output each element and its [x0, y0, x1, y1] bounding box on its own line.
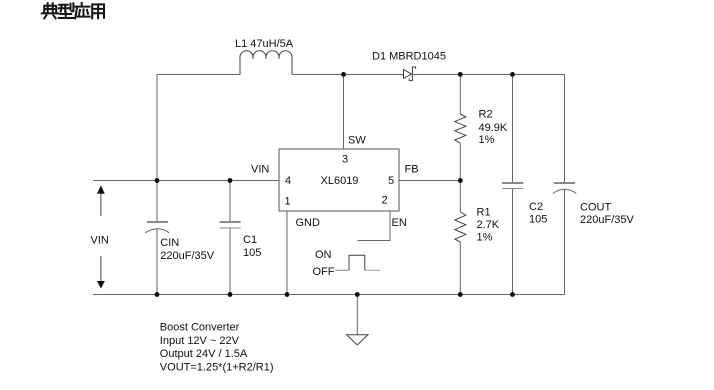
- svg-text:EN: EN: [392, 217, 407, 229]
- node GND pin junction: [285, 292, 290, 297]
- svg-text:R1: R1: [477, 206, 491, 218]
- svg-text:D1 MBRD1045: D1 MBRD1045: [372, 51, 446, 63]
- svg-text:VOUT=1.25*(1+R2/R1): VOUT=1.25*(1+R2/R1): [160, 361, 274, 373]
- svg-text:FB: FB: [405, 164, 419, 176]
- 应: [75, 3, 90, 18]
- svg-text:3: 3: [342, 154, 348, 166]
- title 典型应用: [42, 3, 104, 18]
- 用: [92, 4, 104, 18]
- capacitor C2: [502, 182, 523, 189]
- diode D1: [404, 67, 416, 81]
- wire COUT vertical upper: [564, 74, 566, 182]
- input arrow down: [97, 256, 105, 289]
- wire C2 vertical lower: [512, 189, 514, 295]
- wire VIN rail: [93, 180, 279, 182]
- svg-text:SW: SW: [348, 135, 366, 147]
- node diode cathode junction: [458, 72, 463, 77]
- node FB junction: [458, 178, 463, 183]
- svg-text:49.9K: 49.9K: [479, 122, 508, 134]
- wire COUT vertical lower: [564, 189, 566, 295]
- svg-text:CIN: CIN: [160, 237, 179, 249]
- inductor L1: [240, 51, 292, 75]
- svg-text:C1: C1: [243, 234, 257, 246]
- node CIN bottom junction: [155, 292, 160, 297]
- wire top rail right segment: [412, 74, 565, 76]
- svg-text:Boost Converter: Boost Converter: [160, 321, 240, 333]
- wire R2 to FB: [459, 143, 461, 212]
- wire EN pin L-shape: [358, 211, 391, 241]
- capacitor C1: [220, 221, 241, 228]
- svg-text:L1 47uH/5A: L1 47uH/5A: [235, 38, 294, 50]
- resistor R2: [455, 114, 466, 143]
- node R1 bottom junction: [458, 292, 463, 297]
- wire left branch vertical lower: [156, 229, 158, 295]
- node C2 top junction: [510, 72, 515, 77]
- wire GND pin down: [286, 211, 288, 295]
- svg-text:ON: ON: [315, 249, 332, 261]
- svg-text:GND: GND: [296, 217, 321, 229]
- svg-text:Output 24V / 1.5A: Output 24V / 1.5A: [160, 348, 248, 360]
- svg-text:R2: R2: [479, 109, 493, 121]
- node C2 bottom junction: [510, 292, 515, 297]
- node C1 top junction: [228, 178, 233, 183]
- svg-text:4: 4: [285, 175, 291, 187]
- svg-text:220uF/35V: 220uF/35V: [580, 214, 634, 226]
- wire ground stem: [356, 295, 358, 336]
- wire R1 bottom: [459, 242, 461, 295]
- wire FB: [399, 180, 460, 182]
- op IC U1 XL6019: [279, 149, 399, 211]
- svg-text:VIN: VIN: [251, 164, 269, 176]
- node CIN top junction: [155, 178, 160, 183]
- wire top rail left segment: [157, 74, 240, 76]
- svg-text:OFF: OFF: [313, 266, 335, 278]
- svg-text:C2: C2: [529, 201, 543, 213]
- svg-text:Input 12V ~ 22V: Input 12V ~ 22V: [160, 335, 240, 347]
- capacitor COUT: [553, 182, 576, 193]
- svg-text:105: 105: [243, 247, 261, 259]
- svg-text:220uF/35V: 220uF/35V: [160, 250, 214, 262]
- input arrow up: [97, 185, 105, 216]
- svg-text:COUT: COUT: [580, 202, 611, 214]
- svg-text:105: 105: [529, 213, 547, 225]
- svg-text:5: 5: [388, 175, 394, 187]
- svg-text:1%: 1%: [477, 231, 493, 243]
- wire C1 vertical lower: [229, 229, 231, 295]
- svg-text:2.7K: 2.7K: [477, 219, 500, 231]
- ground: [347, 335, 368, 345]
- svg-text:2: 2: [382, 195, 388, 207]
- node SW rail junction: [341, 72, 346, 77]
- wire SW to rail: [343, 74, 345, 149]
- svg-text:XL6019: XL6019: [321, 175, 359, 187]
- resistor R1: [455, 212, 466, 242]
- wire left branch vertical upper: [156, 74, 158, 221]
- wire C2 vertical upper: [512, 74, 514, 182]
- node ground stem junction: [355, 292, 360, 297]
- 典: [42, 3, 58, 18]
- pulse waveform: [335, 269, 349, 271]
- svg-text:1: 1: [285, 196, 291, 208]
- wire bottom rail: [93, 294, 565, 296]
- 型: [59, 3, 74, 18]
- svg-text:1%: 1%: [479, 134, 495, 146]
- wire R2 top: [459, 74, 461, 114]
- capacitor CIN: [145, 221, 169, 233]
- wire top rail middle segment: [292, 74, 404, 76]
- wire C1 vertical upper: [229, 181, 231, 222]
- node C1 bottom junction: [228, 292, 233, 297]
- svg-text:VIN: VIN: [91, 235, 109, 247]
